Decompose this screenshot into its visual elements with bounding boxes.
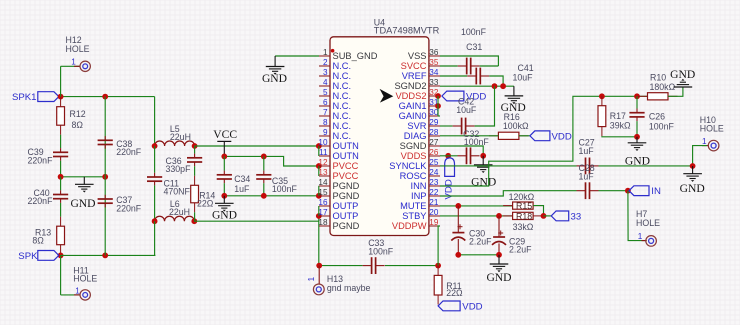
- svg-text:VSS: VSS: [408, 51, 427, 61]
- pin 7 N.C.: [319, 115, 330, 117]
- node L5 left: [152, 143, 158, 149]
- svg-text:22: 22: [429, 188, 439, 197]
- svg-text:13: 13: [318, 168, 328, 177]
- pin 2 N.C.: [319, 65, 330, 67]
- svg-text:HOLE: HOLE: [636, 218, 660, 228]
- pin 10 OUTN: [319, 145, 330, 147]
- svg-text:HOLE: HOLE: [700, 124, 724, 134]
- svg-text:8Ω: 8Ω: [72, 120, 84, 130]
- wire C39-GND rail: [60, 161, 62, 177]
- svg-text:16: 16: [318, 198, 328, 207]
- ground GND left: [83, 177, 85, 185]
- svg-text:N.C.: N.C.: [333, 101, 352, 111]
- capacitor C28: [585, 182, 587, 199]
- ground GND pin1: [275, 55, 319, 57]
- svg-text:1uF: 1uF: [234, 184, 250, 194]
- svg-text:100nF: 100nF: [461, 27, 487, 37]
- wire C27 to H10 gnd: [599, 165, 693, 167]
- wire SVR row: [440, 125, 453, 127]
- wire MUTE row: [440, 205, 513, 207]
- svg-text:2.2uF: 2.2uF: [469, 236, 492, 246]
- node pin31: [435, 103, 441, 109]
- svg-text:9: 9: [323, 128, 328, 137]
- hier label VDD pin32: [442, 91, 464, 101]
- svg-text:INN: INN: [410, 181, 426, 191]
- wire DIAG to R16: [440, 135, 498, 137]
- svg-text:10uF: 10uF: [513, 73, 534, 83]
- svg-text:29: 29: [429, 118, 439, 127]
- svg-text:24: 24: [429, 168, 439, 177]
- svg-text:1: 1: [323, 48, 328, 57]
- svg-text:GND: GND: [486, 271, 511, 284]
- svg-text:SGND: SGND: [400, 141, 427, 151]
- svg-text:100nF: 100nF: [272, 184, 298, 194]
- hole H10: [708, 140, 719, 151]
- pin 19 VDDPW: [429, 225, 440, 227]
- wire to label 33: [544, 215, 552, 217]
- wire OUTN pin tie: [318, 146, 320, 156]
- pin 4 N.C.: [319, 85, 330, 87]
- pin 21 MUTE: [429, 205, 440, 207]
- svg-text:N.C.: N.C.: [333, 121, 352, 131]
- node C33 left junction: [316, 263, 322, 269]
- capacitor C31: [440, 65, 458, 67]
- svg-text:R12: R12: [70, 109, 86, 119]
- svg-text:3: 3: [323, 68, 328, 77]
- svg-text:330pF: 330pF: [166, 164, 192, 174]
- wire SPK1 to L5: [154, 97, 156, 146]
- svg-text:22Ω: 22Ω: [197, 199, 214, 209]
- svg-text:100nF: 100nF: [368, 246, 394, 256]
- capacitor C35: [263, 156, 265, 170]
- hier label SPK1: [38, 92, 59, 102]
- pin 35 SVCC: [429, 65, 440, 67]
- pin 29 SVR: [429, 125, 440, 127]
- wire OUTP pin tie: [318, 206, 320, 216]
- svg-text:28: 28: [429, 128, 439, 137]
- wire PGND rail: [224, 195, 318, 197]
- node OUTN pins junction: [316, 143, 322, 149]
- wire SGND row: [440, 146, 483, 156]
- svg-text:PVCC: PVCC: [333, 171, 359, 181]
- node GND rail left: [58, 174, 64, 180]
- svg-text:1: 1: [75, 287, 80, 296]
- svg-text:35: 35: [429, 58, 439, 67]
- svg-text:1: 1: [702, 137, 707, 146]
- pin 26 VDDS: [429, 155, 440, 157]
- node SPK junction: [58, 253, 64, 259]
- ground GND under C29: [498, 255, 500, 264]
- wire SPK1 rail: [61, 96, 155, 98]
- node C35 top: [261, 154, 267, 160]
- svg-text:18: 18: [318, 218, 328, 227]
- svg-text:HOLE: HOLE: [73, 273, 97, 283]
- pin 3 N.C.: [319, 75, 330, 77]
- node C29 bottom: [496, 252, 502, 258]
- node PGND pins junction: [316, 193, 322, 199]
- svg-text:GAIN0: GAIN0: [399, 111, 427, 121]
- ground GND under C34: [223, 196, 225, 204]
- resistor R11: [437, 266, 439, 276]
- svg-text:14: 14: [318, 178, 328, 187]
- svg-text:15: 15: [318, 188, 328, 197]
- svg-text:10: 10: [318, 138, 328, 147]
- svg-text:N.C.: N.C.: [333, 131, 352, 141]
- wire R15 jog: [533, 206, 543, 216]
- svg-text:39kΩ: 39kΩ: [610, 120, 631, 130]
- pin 9 N.C.: [319, 135, 330, 137]
- svg-text:MUTE: MUTE: [400, 201, 426, 211]
- hole H11: [60, 255, 62, 295]
- svg-text:R18: R18: [516, 211, 532, 221]
- node PVCC pins junction: [316, 163, 322, 169]
- wire R16 to VDD: [519, 135, 530, 137]
- svg-text:23: 23: [429, 178, 439, 187]
- ground GND under C32: [482, 156, 484, 165]
- wire C37 column: [104, 177, 106, 256]
- ground GND sgnd2: [513, 86, 515, 96]
- svg-text:22Ω: 22Ω: [446, 288, 463, 298]
- pin 30 GAIN0: [429, 115, 440, 117]
- hier label VDD R16: [530, 131, 550, 141]
- wire C38 column: [104, 97, 106, 177]
- capacitor C41: [475, 68, 477, 85]
- svg-text:VDD: VDD: [462, 301, 482, 312]
- svg-text:C34: C34: [234, 174, 250, 184]
- pin 13 PVCC: [319, 175, 330, 177]
- svg-text:220nF: 220nF: [116, 203, 142, 213]
- node H10 gnd junction: [690, 163, 696, 169]
- svg-text:5: 5: [323, 88, 328, 97]
- resistor R17: [601, 96, 603, 106]
- pin 12 PVCC: [319, 165, 330, 167]
- node SPK1-R12 junction: [58, 94, 64, 100]
- svg-text:SVCC: SVCC: [401, 61, 427, 71]
- svg-text:27: 27: [429, 138, 439, 147]
- wire PVCC pin tie: [318, 166, 320, 176]
- svg-text:OUTP: OUTP: [333, 201, 359, 211]
- svg-text:25: 25: [429, 158, 439, 167]
- svg-text:4: 4: [323, 78, 328, 87]
- wire L6 left to bottom rail: [154, 221, 156, 255]
- svg-text:VDD: VDD: [552, 131, 572, 142]
- node SVR riser junction: [492, 83, 498, 89]
- node OUTP pins junction: [316, 213, 322, 219]
- svg-text:gnd maybe: gnd maybe: [327, 283, 371, 293]
- ground GND H10: [692, 166, 694, 174]
- capacitor C39: [53, 151, 68, 153]
- svg-text:OUTN: OUTN: [333, 151, 359, 161]
- resistor R12: [60, 97, 62, 107]
- wire STBY row: [440, 215, 513, 217]
- pin 1 SUB_GND: [319, 55, 330, 57]
- pin 22 INP: [429, 195, 440, 197]
- svg-text:VCC: VCC: [213, 128, 237, 141]
- wire bottom left rail: [61, 254, 156, 256]
- capacitor C40: [60, 177, 62, 191]
- wire C33 right rail: [385, 265, 438, 267]
- node C26 top: [634, 93, 640, 99]
- node C32 right: [480, 153, 486, 159]
- capacitor C26: [636, 96, 638, 108]
- hier label IN: [629, 186, 649, 196]
- resistor R13: [60, 217, 62, 227]
- svg-text:SPK: SPK: [18, 251, 38, 262]
- node VDDS pin26: [445, 153, 451, 159]
- node C38 top junction: [102, 94, 108, 100]
- svg-text:220nF: 220nF: [28, 155, 54, 165]
- svg-text:33: 33: [429, 78, 439, 87]
- capacitor C11: [147, 176, 162, 178]
- svg-text:22uH: 22uH: [170, 132, 191, 142]
- ground GND under C26: [636, 137, 638, 143]
- svg-text:10uF: 10uF: [456, 105, 477, 115]
- svg-text:6: 6: [323, 98, 328, 107]
- pin 20 STBY: [429, 215, 440, 217]
- svg-text:GND: GND: [70, 197, 95, 210]
- pin 33 SGND2: [429, 85, 440, 87]
- svg-text:1: 1: [638, 232, 643, 241]
- svg-text:HOLE: HOLE: [66, 44, 90, 54]
- svg-text:1: 1: [307, 276, 316, 281]
- resistor R18: [503, 215, 512, 217]
- wire C30 C29 bottom rail: [458, 254, 499, 256]
- svg-text:INP: INP: [411, 191, 427, 201]
- svg-text:GND: GND: [212, 209, 237, 222]
- node IN junction: [625, 188, 631, 194]
- pin 34 VREF: [429, 75, 440, 77]
- svg-text:7: 7: [323, 108, 328, 117]
- svg-text:ROSC: ROSC: [400, 171, 427, 181]
- svg-text:N.C.: N.C.: [333, 111, 352, 121]
- svg-text:34: 34: [429, 68, 439, 77]
- svg-text:VDDS2: VDDS2: [395, 91, 426, 101]
- svg-text:8Ω: 8Ω: [32, 236, 44, 246]
- svg-text:220nF: 220nF: [28, 196, 54, 206]
- svg-text:PGND: PGND: [333, 221, 360, 231]
- resistor R10: [638, 95, 648, 97]
- wire SGND2: [440, 85, 514, 87]
- resistor R15: [503, 205, 512, 207]
- capacitor C34: [223, 156, 225, 170]
- node pin32: [435, 93, 441, 99]
- pin 18 PGND: [319, 225, 330, 227]
- hole H13: [318, 266, 320, 284]
- svg-text:20: 20: [429, 208, 439, 217]
- pin 36 VSS: [429, 55, 440, 57]
- svg-text:VDDPW: VDDPW: [392, 221, 427, 231]
- svg-text:VREF: VREF: [402, 71, 427, 81]
- svg-text:21: 21: [429, 198, 439, 207]
- pin 28 DIAG: [429, 135, 440, 137]
- svg-text:26: 26: [429, 148, 439, 157]
- svg-text:OUTP: OUTP: [333, 211, 359, 221]
- pin 32 VDDS2: [429, 95, 440, 97]
- wire C11 column: [154, 146, 156, 173]
- capacitor C30 polarized: [457, 206, 459, 233]
- svg-text:470NF: 470NF: [164, 186, 191, 196]
- svg-text:100nF: 100nF: [649, 121, 675, 131]
- hole H7: [642, 240, 647, 242]
- wire VCC rail: [224, 156, 318, 166]
- svg-text:19: 19: [429, 218, 439, 227]
- svg-text:N.C.: N.C.: [333, 81, 352, 91]
- capacitor C29 polarized: [498, 216, 500, 237]
- pin 5 N.C.: [319, 95, 330, 97]
- node C37 bottom junction: [102, 253, 108, 259]
- wire left GND rail: [61, 176, 106, 178]
- svg-text:2: 2: [323, 58, 328, 67]
- wire C42 to SGND2: [475, 86, 495, 126]
- svg-text:GND: GND: [262, 72, 287, 85]
- wire OUTP to C33 rail: [319, 265, 362, 267]
- wire OUTP column: [318, 216, 320, 265]
- capacitor C32: [466, 147, 468, 164]
- wire C11 to L6: [154, 185, 156, 221]
- svg-text:N.C.: N.C.: [333, 61, 352, 71]
- pin 17 OUTP: [319, 215, 330, 217]
- svg-text:1uF: 1uF: [579, 172, 595, 182]
- svg-text:PGND: PGND: [333, 191, 360, 201]
- svg-text:180kΩ: 180kΩ: [650, 82, 676, 92]
- svg-text:R15: R15: [516, 201, 532, 211]
- svg-text:33: 33: [571, 211, 582, 222]
- pin 16 OUTP: [319, 205, 330, 207]
- wire IN to H7: [628, 191, 647, 241]
- svg-text:IN: IN: [651, 186, 661, 197]
- capacitor C37: [98, 198, 113, 200]
- resistor R16: [489, 135, 499, 137]
- node C34 top: [221, 154, 227, 160]
- wire PGND pin tie: [318, 186, 320, 196]
- svg-text:GND: GND: [670, 68, 695, 81]
- hier label VDD vertical: [445, 158, 455, 177]
- node R17 top: [599, 93, 605, 99]
- wire OUTP row: [194, 220, 318, 222]
- svg-text:PVCC: PVCC: [333, 161, 359, 171]
- wire R14 to L6: [194, 212, 196, 221]
- svg-text:SPK1: SPK1: [12, 92, 37, 103]
- wire C36 to R14: [194, 166, 196, 176]
- svg-text:C31: C31: [466, 42, 482, 52]
- svg-text:220nF: 220nF: [116, 147, 142, 157]
- pin 27 SGND: [429, 145, 440, 147]
- svg-text:C41: C41: [518, 63, 534, 73]
- capacitor C33: [371, 257, 373, 274]
- node C30 bottom: [455, 252, 461, 258]
- pin 14 PGND: [319, 185, 330, 187]
- wire C40-R13: [60, 203, 62, 217]
- svg-text:11: 11: [319, 148, 328, 157]
- svg-text:STBY: STBY: [402, 211, 426, 221]
- hier label SPK: [38, 251, 59, 261]
- wire gain tie: [437, 96, 439, 116]
- wire C28 to IN: [599, 190, 628, 192]
- wire VSS: [440, 56, 498, 66]
- wire R10 to GND: [668, 87, 683, 96]
- svg-text:VDDS: VDDS: [401, 151, 427, 161]
- svg-text:17: 17: [318, 208, 328, 217]
- node pin1 dot: [331, 49, 335, 53]
- svg-text:33kΩ: 33kΩ: [513, 222, 534, 232]
- node GND rail right: [102, 174, 108, 180]
- wire OUTN row: [195, 145, 319, 147]
- svg-text:12: 12: [318, 158, 328, 167]
- hier label 33: [551, 211, 569, 221]
- svg-text:SUB_GND: SUB_GND: [333, 51, 378, 61]
- node C35 bottom: [261, 193, 267, 199]
- svg-text:SGND2: SGND2: [394, 81, 426, 91]
- wire R12-C39: [60, 135, 62, 148]
- pin 6 N.C.: [319, 105, 330, 107]
- svg-text:GAIN1: GAIN1: [399, 101, 427, 111]
- svg-text:2.2uF: 2.2uF: [509, 245, 532, 255]
- wire SYNCLK row: [440, 165, 577, 167]
- wire R17 C26 bottom: [602, 135, 637, 138]
- svg-text:100nF: 100nF: [464, 137, 490, 147]
- hole H12: [60, 66, 62, 96]
- svg-text:36: 36: [429, 48, 439, 57]
- pin 15 PGND: [319, 195, 330, 197]
- cursor arrow: [380, 89, 394, 103]
- svg-text:PGND: PGND: [333, 181, 360, 191]
- svg-text:100kΩ: 100kΩ: [503, 121, 529, 131]
- inductor L6: [155, 216, 195, 221]
- svg-text:SVR: SVR: [407, 121, 426, 131]
- svg-text:SYNCLK: SYNCLK: [389, 161, 427, 171]
- node R15 R18 junction: [541, 213, 547, 219]
- svg-text:R17: R17: [610, 111, 626, 121]
- op-amp U4 body: [330, 37, 429, 236]
- capacitor C27: [585, 158, 587, 175]
- node PGND rail left: [221, 193, 227, 199]
- svg-text:OUTN: OUTN: [333, 141, 359, 151]
- svg-text:30: 30: [429, 108, 439, 117]
- resistor R14: [194, 176, 196, 186]
- svg-text:1uF: 1uF: [579, 146, 595, 156]
- svg-text:C26: C26: [649, 112, 665, 122]
- svg-text:8: 8: [323, 118, 328, 127]
- pin 24 ROSC: [429, 175, 440, 177]
- pin 25 SYNCLK: [429, 165, 440, 167]
- node C29 top: [496, 213, 502, 219]
- node C41 gnd junction: [500, 83, 506, 89]
- node C33 right junction: [435, 263, 441, 269]
- inductor L5: [155, 141, 195, 146]
- svg-text:N.C.: N.C.: [333, 71, 352, 81]
- pin 8 N.C.: [319, 125, 330, 127]
- wire C36 column: [194, 146, 196, 154]
- node L6 right: [191, 218, 197, 224]
- ground GND inverted: [674, 86, 693, 88]
- capacitor C38: [98, 139, 113, 141]
- node C30 top: [455, 203, 461, 209]
- wire INN route: [440, 96, 648, 186]
- wire VDDPW column: [438, 226, 440, 266]
- hier label VDD bottom: [438, 301, 460, 311]
- node L6 left: [152, 218, 158, 224]
- pin 11 OUTN: [319, 155, 330, 157]
- wire INP route: [440, 191, 577, 196]
- svg-text:TDA7498MVTR: TDA7498MVTR: [374, 25, 440, 35]
- pin 23 INN: [429, 185, 440, 187]
- wire VDDS stub: [440, 155, 458, 157]
- pin 31 GAIN1: [429, 105, 440, 107]
- capacitor C42: [461, 118, 463, 135]
- svg-text:N.C.: N.C.: [333, 91, 352, 101]
- node L5 right: [192, 143, 198, 149]
- wire VREF: [440, 75, 467, 77]
